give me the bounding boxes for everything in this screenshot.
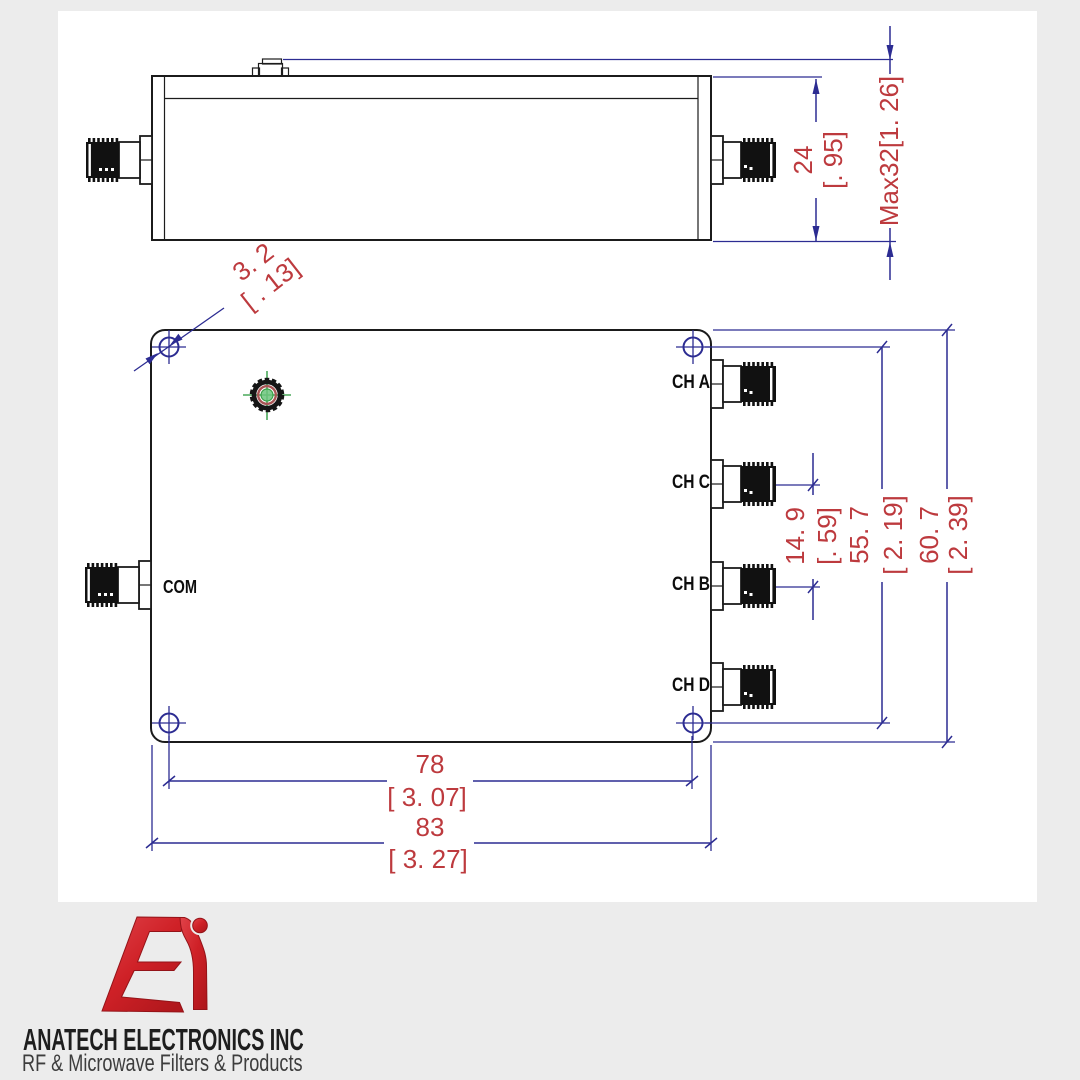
svg-text:CH B: CH B [672, 574, 710, 595]
connector CH C [711, 460, 776, 508]
dimension 55.7 [2.19] [705, 341, 908, 729]
svg-text:55. 7: 55. 7 [844, 506, 874, 564]
svg-text:[ 3. 07]: [ 3. 07] [387, 782, 467, 812]
svg-text:[ 2. 19]: [ 2. 19] [878, 495, 908, 575]
dimension 14.9 [.59] [776, 453, 844, 620]
svg-text:60. 7: 60. 7 [914, 506, 944, 564]
company name text [23, 1022, 304, 1058]
company tagline text [22, 1050, 303, 1078]
svg-text:COM: COM [163, 577, 197, 597]
Anatech logo Ei mark [102, 916, 210, 1012]
COM connector [85, 561, 151, 609]
SMA connector, side view right [711, 136, 776, 184]
dimension 78 [3.07] [163, 736, 698, 812]
connector CH A [711, 360, 776, 408]
svg-text:Max32[1. 26]: Max32[1. 26] [874, 76, 904, 226]
svg-text:CH C: CH C [672, 472, 710, 493]
white drawing sheet [58, 11, 1037, 902]
dimension 60.7 [2.39] [713, 324, 974, 748]
connector CH B [711, 562, 776, 610]
connector CH D [711, 663, 776, 711]
dimension 83 [3.27] [146, 745, 717, 874]
screw boss on lid [253, 59, 289, 76]
dimension 24 [.95] [713, 77, 896, 242]
svg-text:[. 59]: [. 59] [812, 507, 842, 565]
svg-text:[ 3. 27]: [ 3. 27] [388, 844, 468, 874]
svg-text:83: 83 [416, 812, 445, 842]
enclosure outline [151, 330, 711, 742]
svg-text:[. 95]: [. 95] [818, 131, 848, 189]
mounting hole top-right [676, 330, 710, 364]
dimension Max32 [1.26] [283, 26, 904, 280]
svg-text:24: 24 [788, 146, 818, 175]
SMA connector, side view left [86, 136, 152, 184]
svg-text:CH D: CH D [672, 675, 710, 696]
mounting hole bottom-left [152, 706, 186, 740]
mounting hole top-left [152, 330, 186, 364]
svg-text:[ 2. 39]: [ 2. 39] [943, 495, 973, 575]
svg-text:14. 9: 14. 9 [780, 507, 810, 565]
tuning screw [243, 371, 291, 420]
svg-text:CH A: CH A [672, 372, 710, 393]
svg-text:78: 78 [416, 749, 445, 779]
corner radius leader 3.2 [.13] [134, 230, 305, 371]
enclosure body (side view) [152, 76, 711, 240]
mounting hole bottom-right [676, 706, 710, 740]
